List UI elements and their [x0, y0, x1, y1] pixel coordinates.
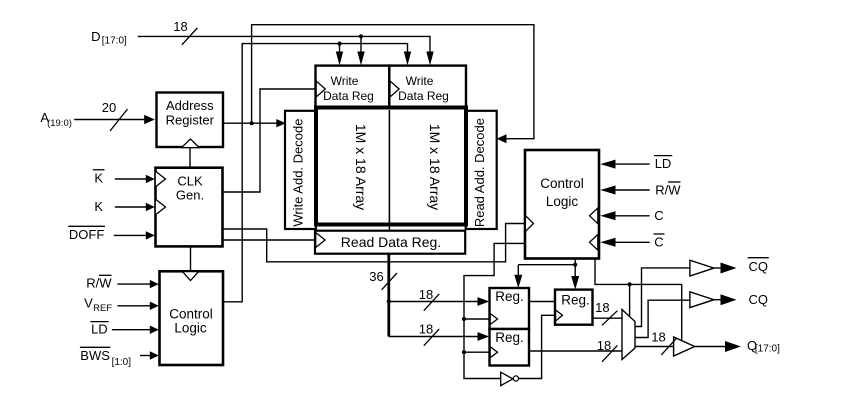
arrowhead branch2 into reg2 [478, 332, 490, 341]
clock chevron write data reg 2 [390, 81, 399, 97]
svg-text:CQ: CQ [748, 259, 768, 274]
junction dot D branch [359, 34, 363, 38]
svg-text:18: 18 [595, 300, 609, 315]
arrowhead branch1 into reg1 [478, 297, 490, 306]
clock chevron address register [182, 139, 200, 148]
junction dot reg2 clock [462, 350, 466, 354]
wire BWS input [140, 355, 151, 357]
arrowhead LD-bar right [600, 160, 615, 169]
bus slash branch2 18 [424, 329, 439, 346]
svg-text:V: V [84, 296, 93, 311]
write data reg 2 U5 [389, 66, 466, 108]
clock chevron reg2 [490, 347, 497, 358]
svg-text:Data Reg: Data Reg [398, 89, 449, 103]
svg-text:REF: REF [93, 303, 112, 314]
write address decode U6 [285, 111, 316, 229]
svg-text:D: D [91, 29, 100, 44]
wire address register output [223, 122, 277, 124]
output reg3 U12 [555, 290, 593, 325]
bus slash branch1 18 [424, 294, 439, 311]
arrowhead R/W-bar left [150, 280, 159, 288]
read data reg U9 [315, 231, 465, 254]
clock chevron clk gen K-bar [155, 171, 165, 187]
svg-text:Control: Control [169, 306, 213, 321]
svg-text:Reg.: Reg. [495, 330, 524, 345]
CQ output buffer [690, 292, 714, 308]
svg-text:36: 36 [369, 269, 383, 284]
bus slash A 20 [110, 109, 128, 131]
output reg1 U10 [490, 288, 530, 329]
svg-text:LD: LD [91, 322, 108, 337]
svg-text:20: 20 [102, 100, 116, 115]
clock chevron C-bar input [590, 235, 598, 251]
overline LD right [654, 155, 672, 157]
svg-text:Control: Control [540, 176, 584, 191]
svg-text:LD: LD [655, 156, 672, 171]
svg-text:DOFF: DOFF [69, 227, 104, 242]
svg-text:C: C [654, 235, 663, 250]
wire mux to CQ buffer [635, 300, 690, 337]
arrowhead into write add decode [276, 119, 286, 127]
clock chevron reg3 [556, 310, 563, 321]
output mux [622, 310, 635, 360]
control logic left U3 [160, 271, 224, 365]
svg-text:CQ: CQ [748, 292, 768, 307]
bus slash Q 18 [661, 338, 676, 355]
bus slash reg3 out 18 [602, 311, 617, 326]
junction dot address fanout [250, 121, 254, 125]
arrowhead Q output [725, 341, 741, 352]
wire control logic right bottom stub to reg enables [574, 259, 576, 265]
wire D bus [138, 36, 430, 53]
overline BWS [80, 346, 110, 348]
arrowhead K [146, 203, 155, 211]
wire reg2 output to mux [529, 350, 622, 352]
wire clk gen to control logic left [190, 246, 192, 271]
wire drop to reg3 top [574, 265, 576, 277]
wire clk to write data reg clock [223, 89, 316, 192]
svg-text:C: C [654, 208, 663, 223]
svg-text:Write: Write [406, 74, 434, 88]
array divider [388, 110, 390, 225]
overline W of R/W left [99, 274, 112, 276]
clock chevron read data reg [316, 233, 325, 248]
junction dot BWS branch [337, 42, 341, 46]
wire array to read data reg stub [388, 226, 390, 231]
arrowhead C-bar right [600, 238, 615, 247]
clock chevron clk gen K [155, 199, 165, 215]
inverter gate [501, 372, 513, 385]
wire mux select stub [629, 284, 631, 316]
address register U1 [157, 93, 224, 148]
memory array block U8 [316, 108, 466, 225]
arrowhead VREF [150, 302, 159, 310]
wire drop to reg1 top [517, 265, 519, 276]
read address decode U7 [466, 111, 497, 229]
wire control logic right to mux select and q driver clock [595, 259, 682, 341]
arrowhead A input [144, 115, 155, 125]
wire K-bar input [115, 178, 147, 180]
write data reg 1 U4 [316, 66, 390, 108]
arrowhead BWS left [150, 351, 159, 359]
clock chevron reg1 [490, 314, 497, 325]
svg-text:18: 18 [651, 330, 665, 345]
svg-text:18: 18 [173, 19, 187, 34]
bus slash 36 [382, 273, 397, 290]
Q output buffer [674, 337, 695, 356]
wire C input [614, 215, 650, 217]
wire address register to clk gen [189, 147, 191, 168]
wire C-bar input [614, 241, 650, 243]
junction dot reg1 clock [462, 317, 466, 321]
wire LD-bar input right [614, 163, 650, 165]
overline K-bar [93, 169, 105, 171]
clk gen U2 [156, 168, 223, 247]
arrowhead CQ output [721, 294, 737, 305]
bus slash reg2 out 18 [602, 345, 617, 361]
control logic right U13 [525, 150, 599, 259]
bus slash D 18 [182, 28, 197, 45]
wire reg1 clock stub [464, 318, 490, 320]
junction dot reg enable [573, 263, 577, 267]
junction dot mux select [628, 282, 632, 286]
wire clk to control logic right chevron [223, 224, 525, 262]
svg-text:K: K [94, 171, 103, 186]
overline C-bar [654, 233, 665, 235]
svg-text:Gen.: Gen. [176, 187, 204, 202]
wire R/W-bar input left [117, 283, 151, 285]
svg-text:Logic: Logic [546, 194, 579, 209]
svg-text:1M x 18 Array: 1M x 18 Array [427, 124, 443, 210]
svg-text:Address: Address [166, 98, 214, 113]
svg-text:Reg.: Reg. [561, 293, 590, 308]
svg-text:1M x 18 Array: 1M x 18 Array [353, 124, 369, 210]
arrowhead C right [600, 211, 615, 220]
arrowhead DOFF [146, 231, 155, 239]
svg-text:Read Data Reg.: Read Data Reg. [341, 234, 441, 250]
svg-text:K: K [94, 199, 103, 214]
wire control logic right to output reg clocks [464, 243, 525, 378]
wire mux to CQ-bar buffer [635, 268, 690, 327]
clock chevron control logic left [183, 272, 199, 281]
arrowhead into reg3 top [571, 276, 579, 290]
svg-text:CLK: CLK [177, 174, 203, 189]
overline W of R/W right [668, 181, 681, 183]
svg-text:Data Reg: Data Reg [323, 89, 374, 103]
svg-text:Reg.: Reg. [495, 289, 524, 304]
arrowhead CQ-bar output [721, 263, 737, 274]
svg-text:BWS: BWS [80, 348, 110, 363]
svg-text:(19:0): (19:0) [47, 118, 72, 129]
wire DOFF input [114, 234, 147, 236]
clock chevron control logic right left edge [525, 216, 533, 232]
arrowhead D into WDR2 [426, 52, 433, 66]
wire reg1 to reg3 [529, 301, 555, 303]
svg-text:R/W: R/W [655, 183, 681, 198]
arrowhead BWS into WDR2 [404, 52, 411, 66]
svg-text:Read Add. Decode: Read Add. Decode [472, 118, 487, 227]
svg-text:[1:0]: [1:0] [112, 357, 132, 368]
wire inverter output to reg3 clock [519, 315, 555, 378]
svg-text:18: 18 [419, 287, 433, 302]
arrowhead LD-bar left [150, 326, 159, 334]
wire 36-bit bus from read data reg [387, 254, 390, 337]
overline CQ-bar [748, 257, 769, 259]
wire reg2 clock stub [464, 351, 490, 353]
wire clk to read data reg clock [223, 239, 315, 241]
wire R/W-bar input right [614, 189, 650, 191]
wire address register to read add decode top route [252, 25, 534, 139]
wire CQ-bar output [714, 267, 722, 269]
overline DOFF [68, 225, 105, 227]
arrowhead into read add decode [497, 134, 507, 143]
wire 18-bit branch to reg2 [389, 336, 479, 338]
svg-text:Write: Write [331, 74, 359, 88]
wire D branch to write data reg 1 [360, 36, 362, 53]
svg-text:Register: Register [166, 112, 215, 127]
wire K input [115, 206, 147, 208]
clock chevron write data reg 1 [316, 81, 325, 97]
arrowhead into reg1 top [514, 275, 522, 289]
arrowhead D into WDR1 [357, 52, 364, 66]
output reg2 U11 [490, 329, 530, 366]
svg-text:18: 18 [419, 322, 433, 337]
wire LD-bar input left [112, 329, 151, 331]
wire BWS control to write data regs [223, 44, 408, 302]
CQ-bar output buffer [690, 260, 714, 276]
svg-text:Logic: Logic [174, 320, 207, 335]
wire CQ output [714, 299, 722, 301]
svg-text:Write Add. Decode: Write Add. Decode [291, 119, 306, 227]
svg-text:[17:0]: [17:0] [755, 344, 780, 355]
svg-text:R/W: R/W [86, 275, 112, 290]
svg-text:18: 18 [597, 338, 611, 353]
wire VREF input [117, 305, 151, 307]
junction dot 36-bus branch [387, 299, 391, 303]
arrowhead K-bar [146, 175, 155, 183]
arrowhead BWS into WDR1 [336, 52, 343, 66]
wire Q output [695, 346, 727, 348]
wire BWS branch to write data reg 1 [339, 44, 341, 53]
overline LD left [90, 321, 108, 323]
arrowhead R/W-bar right [600, 186, 615, 195]
wire reg enable line [518, 264, 575, 266]
wire A input [74, 119, 145, 121]
wire mux to Q buffer [635, 346, 673, 348]
clock chevron C input [590, 208, 598, 224]
svg-text:[17:0]: [17:0] [102, 36, 127, 47]
wire reg3 output to mux [593, 317, 622, 319]
wire 18-bit branch to reg1 [389, 301, 479, 303]
